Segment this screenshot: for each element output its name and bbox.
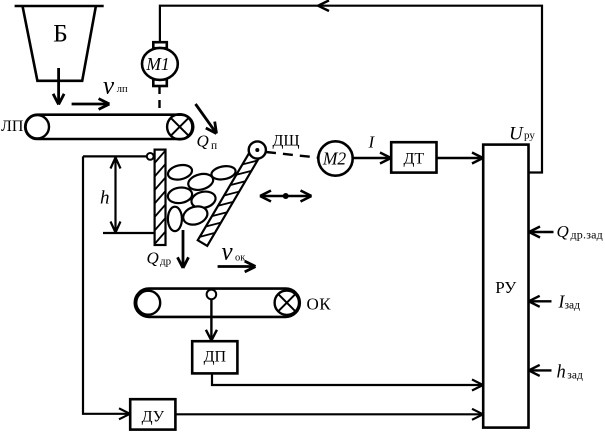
motor M1 <box>142 42 178 86</box>
ore piece ellipse 6 <box>168 207 182 231</box>
svg-text:лп: лп <box>117 84 128 95</box>
svg-text:ДЩ: ДЩ <box>273 133 300 150</box>
svg-text:v: v <box>222 239 234 266</box>
wire OK to DP with arrow <box>206 299 217 340</box>
wire dashed DSh to M2 <box>266 152 318 158</box>
ore piece ellipse 1 <box>167 163 194 182</box>
svg-text:ДП: ДП <box>204 349 227 366</box>
motor M2 <box>318 141 352 175</box>
node pivot circle on plate <box>147 153 154 160</box>
arrow I_zad into RU <box>529 296 552 307</box>
svg-text:п: п <box>211 140 217 152</box>
wire level-line to plate pivot <box>83 155 147 157</box>
conveyor OK belt <box>135 289 300 317</box>
inclined plate DSh hatched <box>198 153 259 246</box>
wire M1 dashed to pulley <box>158 86 160 114</box>
arrow h_zad into RU <box>529 365 552 376</box>
ore piece ellipse 3 <box>210 164 236 181</box>
svg-text:РУ: РУ <box>495 278 517 297</box>
ore piece ellipse 4 <box>167 186 193 205</box>
arrow v_ok right <box>218 261 256 272</box>
label Q_dr <box>147 248 172 267</box>
wire DP to RU with arrow <box>212 374 483 391</box>
svg-text:др: др <box>160 256 172 268</box>
ore piece ellipse 5 <box>190 189 217 210</box>
wire DU to RU with arrow <box>175 409 483 420</box>
label I_zad <box>558 292 581 312</box>
arrow hopper outlet down <box>53 68 64 105</box>
node dot on double arrow <box>283 193 289 199</box>
svg-text:Q: Q <box>147 248 159 267</box>
wire level-line down to DU with arrow <box>83 156 130 419</box>
label v_ok <box>222 239 247 266</box>
dimension h bottom tick <box>103 232 155 234</box>
svg-text:Q: Q <box>557 222 569 241</box>
node sensor roller on OK <box>207 290 217 300</box>
svg-text:Б: Б <box>53 19 68 48</box>
arrow Q_dr down <box>178 230 189 268</box>
label h_zad <box>557 363 583 383</box>
arrow on feedback wire <box>318 0 329 11</box>
ore piece ellipse 7 <box>181 203 210 227</box>
conveyor LP left roller <box>26 115 49 138</box>
vertical gate plate hatched <box>155 150 166 245</box>
block DT current sensor <box>391 142 436 172</box>
svg-text:др.зад: др.зад <box>571 228 603 242</box>
pivot of DSh <box>249 141 266 158</box>
svg-text:v: v <box>103 73 115 100</box>
oscillation double arrow <box>260 191 312 202</box>
dimension h arrows <box>111 158 121 233</box>
svg-text:h: h <box>100 188 110 209</box>
block DU level sensor <box>130 399 175 429</box>
conveyor LP drive pulley X <box>167 114 192 139</box>
svg-text:U: U <box>509 123 524 144</box>
block DP weigher <box>192 341 237 373</box>
wire feedback U_ru to M1 <box>160 6 542 173</box>
label Q_dr.zad <box>557 222 603 242</box>
arrow Q_p falling ore <box>196 104 217 134</box>
block RU regulator <box>483 145 528 428</box>
svg-text:ОК: ОК <box>307 295 332 314</box>
arrow Q_dr.zad into RU <box>529 227 554 238</box>
svg-text:ок: ок <box>235 252 246 263</box>
svg-text:ЛП: ЛП <box>1 118 24 135</box>
label U_ru <box>509 123 535 144</box>
label Q_p <box>197 131 218 152</box>
svg-text:ДУ: ДУ <box>142 409 165 426</box>
svg-text:зад: зад <box>567 370 583 382</box>
svg-text:ру: ру <box>524 130 535 142</box>
wire M2 to DT with arrow <box>353 153 391 164</box>
conveyor OK drive pulley X <box>275 291 299 315</box>
wire DT to RU with arrow <box>437 153 484 164</box>
conveyor LP belt <box>25 115 193 139</box>
svg-text:Q: Q <box>197 131 209 150</box>
svg-text:М2: М2 <box>322 149 347 169</box>
svg-text:М1: М1 <box>145 54 169 74</box>
arrow v_lp right <box>72 99 110 110</box>
label v_lp <box>103 73 128 100</box>
svg-text:зад: зад <box>565 300 581 312</box>
hopper B (bunker) <box>15 6 104 81</box>
svg-text:ДТ: ДТ <box>403 150 424 167</box>
ore piece ellipse 2 <box>187 171 215 192</box>
conveyor OK left roller <box>136 291 160 315</box>
svg-text:h: h <box>557 363 566 383</box>
